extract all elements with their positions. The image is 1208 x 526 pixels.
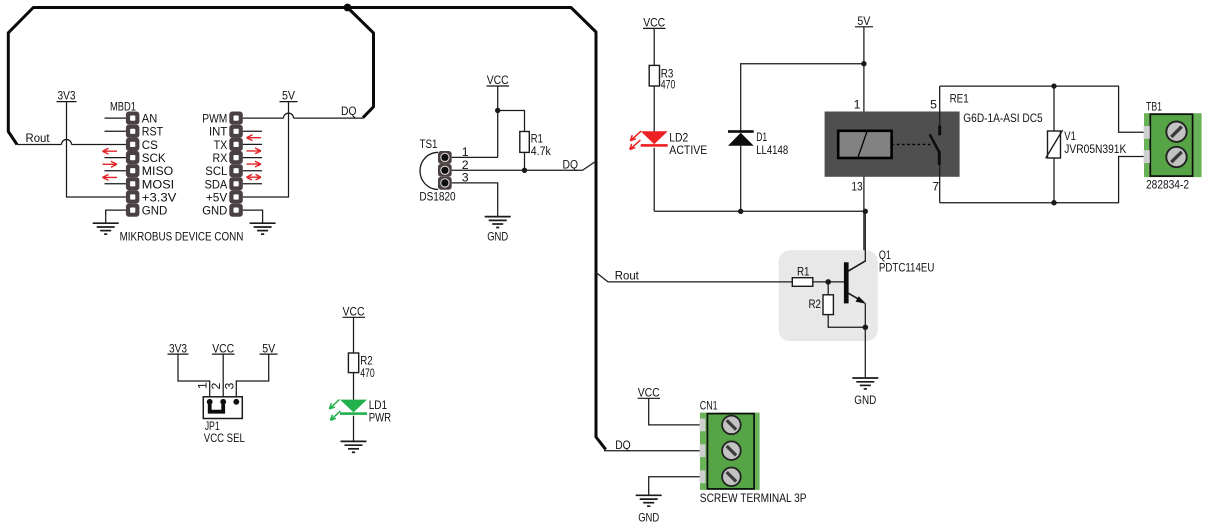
svg-text:SCREW TERMINAL 3P: SCREW TERMINAL 3P <box>700 491 807 505</box>
wire stub SDA <box>243 183 262 185</box>
svg-text:DQ: DQ <box>615 438 631 452</box>
junction top DQ node <box>344 4 352 12</box>
power 5V (MBD1) <box>280 89 298 103</box>
wire TS1 pin3 to ground <box>452 183 498 217</box>
svg-text:MBD1: MBD1 <box>110 100 136 114</box>
svg-text:D1: D1 <box>756 130 767 144</box>
wire R2 to LD1 <box>353 373 355 400</box>
relay coil <box>838 131 891 158</box>
wire stub TX <box>243 143 262 145</box>
wire CN1 pin3 to ground <box>649 477 708 495</box>
wire stub AN <box>105 117 126 119</box>
wire stub RST <box>105 130 126 132</box>
svg-text:GND: GND <box>638 510 659 524</box>
svg-text:CN1: CN1 <box>700 399 718 413</box>
junction collector node <box>863 209 868 214</box>
junction R1/DQ <box>522 168 527 173</box>
wire branch from top junction down to PWM/DQ <box>348 8 374 118</box>
wire stub RX <box>243 157 262 159</box>
power 3V3 (JP1) <box>168 341 189 355</box>
wire pin7 to TB1 terminal 2 <box>940 157 1144 203</box>
wire emitter down <box>864 304 866 328</box>
svg-text:MISO: MISO <box>142 164 173 178</box>
svg-text:SDA: SDA <box>205 177 229 191</box>
svg-text:3: 3 <box>222 383 236 390</box>
signal direction arrows MBD1 right <box>247 135 262 180</box>
wire GND left to ground <box>106 210 126 223</box>
wire R2 branch <box>828 282 865 327</box>
wire Rout to CS pin (with hop over 3V3) <box>17 140 126 145</box>
jumper JP1 body <box>203 397 242 419</box>
junction 5V/D1 <box>861 61 866 66</box>
wire GND right to ground <box>243 210 263 223</box>
LED LD2 ACTIVE (red) <box>630 131 668 149</box>
svg-text:TX: TX <box>214 138 228 152</box>
wire 5V down to relay coil and Q1 collector <box>863 27 865 261</box>
svg-text:Rout: Rout <box>615 268 640 282</box>
junction emitter node <box>863 325 869 331</box>
wire DQ to CN1 pin2 <box>604 450 707 452</box>
svg-text:VCC: VCC <box>212 341 234 355</box>
transistor Q1 PDTC114EU <box>844 261 866 304</box>
wire VCC to CN1 pin1 <box>649 398 708 425</box>
svg-text:LL4148: LL4148 <box>756 143 788 157</box>
svg-text:PWM: PWM <box>202 112 227 126</box>
signal direction arrows MBD1 left <box>103 148 118 180</box>
svg-text:5V: 5V <box>262 341 276 355</box>
connector MBD1 right column (PWM..GND) <box>229 112 243 217</box>
svg-text:MOSI: MOSI <box>142 177 174 191</box>
junction V1 top <box>1051 83 1056 88</box>
junction D1 bottom <box>738 209 743 214</box>
wire R1 bottom to DQ <box>524 152 526 170</box>
wire collector up <box>864 211 866 261</box>
svg-text:AN: AN <box>142 112 158 126</box>
wire stub MISO <box>105 170 126 172</box>
LED LD1 PWR (green) <box>329 400 367 421</box>
ground (MBD1 left) <box>93 222 119 224</box>
svg-text:7: 7 <box>932 180 939 194</box>
relay actuation dashed link <box>892 143 931 145</box>
svg-text:+3.3V: +3.3V <box>142 190 177 204</box>
wire VCC to JP1 pin2 <box>222 354 224 402</box>
svg-text:VCC: VCC <box>638 385 660 399</box>
junction V1 bottom <box>1051 200 1056 205</box>
wire stub SCL <box>243 170 262 172</box>
resistor R2 470 <box>348 353 358 373</box>
svg-text:GND: GND <box>142 204 168 218</box>
svg-text:ACTIVE: ACTIVE <box>669 143 707 157</box>
svg-text:3V3: 3V3 <box>58 89 76 103</box>
wire stub INT <box>243 130 262 132</box>
svg-text:282834-2: 282834-2 <box>1146 178 1189 192</box>
junction VCC/R1 <box>495 108 500 113</box>
svg-text:GND: GND <box>854 393 876 407</box>
svg-text:VCC SEL: VCC SEL <box>204 431 245 445</box>
svg-text:5: 5 <box>930 98 937 112</box>
svg-text:INT: INT <box>209 125 228 139</box>
svg-text:VCC: VCC <box>343 304 365 318</box>
power 5V (JP1) <box>260 341 278 355</box>
svg-text:TB1: TB1 <box>1146 100 1162 114</box>
svg-text:RX: RX <box>213 151 228 165</box>
driver block background <box>779 250 878 341</box>
svg-text:5V: 5V <box>857 14 871 28</box>
wire VCC vertical (TS1) <box>497 86 499 157</box>
sensor TS1 DS1820 body <box>420 151 452 190</box>
power VCC (R3/LD2) <box>643 16 666 30</box>
svg-text:RST: RST <box>142 125 164 139</box>
wire Rout from bus to R1 <box>595 272 792 282</box>
svg-text:VCC: VCC <box>643 16 665 30</box>
ground (MBD1 right) <box>250 222 276 224</box>
svg-text:PWR: PWR <box>369 411 391 425</box>
svg-text:5V: 5V <box>282 89 296 103</box>
svg-text:G6D-1A-ASI DC5: G6D-1A-ASI DC5 <box>963 111 1043 125</box>
wire stub MOSI <box>105 183 126 185</box>
svg-text:CS: CS <box>142 138 158 152</box>
power VCC (LD1) <box>343 304 366 318</box>
wire V1 vertical <box>1053 86 1055 203</box>
power VCC (TS1) <box>487 73 510 87</box>
wire R1 to base <box>813 281 844 283</box>
relay contact (pins 5/7) <box>930 86 940 203</box>
wire 3V3 vertical to +3.3V pin <box>67 102 126 197</box>
varistor V1 JVR05N391K <box>1046 130 1063 158</box>
terminal block CN1 <box>700 413 760 490</box>
power 3V3 (MBD1) <box>57 89 77 103</box>
svg-text:SCL: SCL <box>205 164 227 178</box>
wire to R1 top <box>498 111 525 132</box>
resistor R1 (base) <box>792 278 813 287</box>
junction base node <box>825 279 831 285</box>
svg-text:SCK: SCK <box>142 151 167 165</box>
wire 3V3 to JP1 pin1 <box>178 354 210 402</box>
svg-text:1: 1 <box>195 382 209 389</box>
svg-text:GND: GND <box>487 230 508 244</box>
resistor R1 4.7k <box>520 132 530 153</box>
wire TS1 pin1 to VCC <box>452 156 498 158</box>
svg-text:GND: GND <box>202 204 227 218</box>
connector MBD1 left column (AN..GND) <box>126 112 139 217</box>
power VCC (CN1) <box>638 385 661 399</box>
terminal block TB1 <box>1144 113 1202 177</box>
svg-text:JVR05N391K: JVR05N391K <box>1064 142 1127 156</box>
resistor R2 (base-emitter) <box>823 295 833 315</box>
wire VCC to R2 <box>353 317 355 353</box>
svg-text:PDTC114EU: PDTC114EU <box>879 260 935 274</box>
svg-text:4.7k: 4.7k <box>531 144 552 158</box>
svg-text:R1: R1 <box>797 265 810 279</box>
ground (Q1) <box>852 377 878 379</box>
svg-text:RE1: RE1 <box>950 91 969 105</box>
wire pin5 to TB1 terminal 1 <box>940 86 1144 132</box>
svg-text:Rout: Rout <box>26 131 51 145</box>
wire 5V to JP1 pin3 <box>236 354 268 402</box>
wire LD2 cathode down <box>653 148 655 212</box>
wire emitter to ground <box>864 327 866 377</box>
svg-text:TS1: TS1 <box>420 137 438 151</box>
svg-text:MIKROBUS DEVICE CONN: MIKROBUS DEVICE CONN <box>120 229 244 243</box>
svg-text:1: 1 <box>854 98 861 112</box>
svg-text:DS1820: DS1820 <box>419 189 455 203</box>
wire 5V vertical to +5V pin <box>243 102 289 197</box>
svg-text:VCC: VCC <box>487 73 509 87</box>
ground (TS1) <box>485 216 511 218</box>
relay RE1 body <box>825 112 960 177</box>
ground (CN1) <box>636 494 662 496</box>
resistor R3 470 <box>649 65 659 86</box>
wire VCC to R3 <box>653 28 655 65</box>
wire PWM to DQ (hop over 5V) <box>243 113 364 118</box>
power VCC (JP1) <box>212 341 235 355</box>
wire R3 to LD2 <box>653 86 655 132</box>
svg-text:R2: R2 <box>809 297 822 311</box>
svg-text:DQ: DQ <box>563 158 579 172</box>
wire D1 top branch <box>741 64 864 212</box>
svg-text:V1: V1 <box>1064 129 1076 143</box>
svg-text:3V3: 3V3 <box>169 341 187 355</box>
ground (LD1) <box>341 440 367 442</box>
svg-text:13: 13 <box>851 180 862 194</box>
svg-text:DQ: DQ <box>341 104 357 118</box>
svg-text:470: 470 <box>661 78 676 92</box>
diode D1 LL4148 <box>728 130 754 146</box>
wire TS1 pin2 DQ to bus <box>452 162 596 171</box>
svg-text:470: 470 <box>360 366 375 380</box>
wire main outline loop (3V3/Rout net, thick) <box>8 8 606 450</box>
power 5V (relay) <box>855 14 873 28</box>
wire LD1 to ground <box>353 416 355 441</box>
wire node row y211 (LD2/D1/Q1 collector) <box>654 210 865 212</box>
svg-text:+5V: +5V <box>206 190 228 204</box>
wire stub SCK <box>105 157 126 159</box>
svg-text:2: 2 <box>209 383 223 390</box>
